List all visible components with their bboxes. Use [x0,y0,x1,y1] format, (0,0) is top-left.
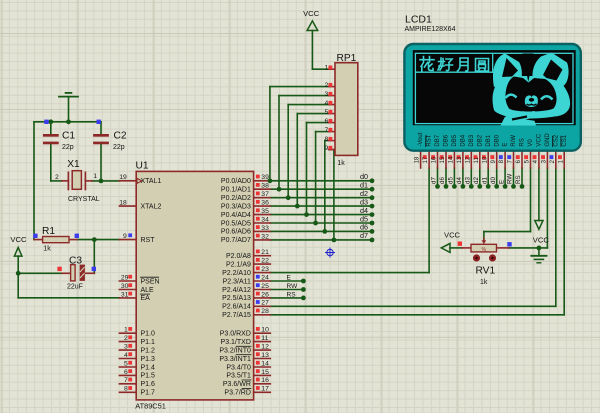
svg-text:6: 6 [124,369,128,376]
svg-text:RST: RST [427,134,433,146]
svg-text:12: 12 [465,156,471,163]
svg-text:P1.7: P1.7 [141,390,156,397]
svg-text:P2.6/A14: P2.6/A14 [222,304,251,311]
svg-text:R/W: R/W [511,135,517,147]
svg-text:VCC: VCC [10,235,27,244]
svg-text:P2.5/A13: P2.5/A13 [222,295,251,302]
svg-text:P3.6/WR: P3.6/WR [223,381,251,388]
svg-text:%: % [481,247,486,253]
svg-text:8: 8 [124,386,128,393]
svg-text:P3.0/RXD: P3.0/RXD [220,331,251,338]
svg-text:X1: X1 [67,159,80,170]
svg-text:7: 7 [124,377,128,384]
svg-text:CRYSTAL: CRYSTAL [68,196,100,203]
svg-text:10: 10 [261,327,269,334]
svg-text:4: 4 [325,100,329,107]
svg-text:1k: 1k [480,279,488,286]
svg-text:3: 3 [542,159,548,163]
svg-text:5: 5 [525,159,531,163]
svg-text:P2.4/A12: P2.4/A12 [222,287,251,294]
svg-text:2: 2 [124,335,128,342]
svg-text:R1: R1 [42,226,55,237]
svg-text:22p: 22p [62,144,74,151]
svg-text:P1.0: P1.0 [141,331,156,338]
svg-text:4: 4 [533,159,539,163]
svg-text:P0.0/AD0: P0.0/AD0 [221,178,251,185]
svg-text:11: 11 [474,157,480,164]
svg-text:P2.7/A15: P2.7/A15 [222,312,251,319]
svg-text:29: 29 [121,274,129,281]
svg-text:9: 9 [325,145,329,152]
svg-text:P3.1/TXD: P3.1/TXD [221,339,251,346]
svg-text:33: 33 [261,225,269,232]
svg-text:P1.6: P1.6 [141,381,156,388]
svg-text:7: 7 [325,127,329,134]
svg-text:28: 28 [261,308,269,315]
svg-text:d1: d1 [481,177,488,184]
svg-text:VCC: VCC [444,230,461,239]
svg-text:23: 23 [261,266,269,273]
svg-text:1k: 1k [337,160,345,167]
svg-text:P3.5/T1: P3.5/T1 [226,373,251,380]
svg-text:24: 24 [261,274,269,281]
svg-text:2: 2 [55,174,59,181]
svg-text:P0.3/AD3: P0.3/AD3 [221,203,251,210]
svg-text:39: 39 [261,174,269,181]
svg-text:P1.2: P1.2 [141,347,156,354]
svg-text:d2: d2 [473,177,480,184]
svg-text:d4: d4 [456,177,463,184]
svg-text:RV1: RV1 [476,265,496,276]
svg-text:P1.3: P1.3 [141,356,156,363]
svg-text:RW: RW [507,174,514,184]
svg-text:5: 5 [124,360,128,367]
svg-text:14: 14 [449,156,455,163]
svg-text:DB0: DB0 [494,134,500,146]
svg-text:P2.1/A9: P2.1/A9 [226,261,251,268]
svg-text:14: 14 [261,360,269,367]
svg-text:32: 32 [261,233,269,240]
svg-text:E: E [498,180,505,184]
svg-text:CS2: CS2 [553,134,559,146]
svg-text:25: 25 [261,283,269,290]
svg-text:17: 17 [261,386,269,393]
svg-text:P0.5/AD5: P0.5/AD5 [221,220,251,227]
svg-text:P0.4/AD4: P0.4/AD4 [221,212,251,219]
svg-text:35: 35 [261,208,269,215]
svg-text:DB6: DB6 [444,134,450,146]
svg-text:12: 12 [261,344,269,351]
svg-text:AMPIRE128X64: AMPIRE128X64 [405,26,456,33]
svg-text:P2.2/A10: P2.2/A10 [222,270,251,277]
svg-text:9: 9 [123,233,127,240]
svg-text:18: 18 [119,200,127,207]
svg-text:2: 2 [325,82,329,89]
svg-text:22uF: 22uF [67,284,83,291]
svg-text:21: 21 [261,249,269,256]
svg-text:P1.1: P1.1 [141,339,156,346]
svg-text:26: 26 [261,291,269,298]
svg-text:3: 3 [325,91,329,98]
svg-text:C3: C3 [69,256,82,267]
svg-text:d7: d7 [360,231,368,240]
svg-text:34: 34 [261,216,269,223]
svg-text:RST: RST [141,237,156,244]
svg-text:4: 4 [124,352,128,359]
svg-text:16: 16 [261,377,269,384]
svg-text:P0.6/AD6: P0.6/AD6 [221,229,251,236]
svg-text:d6: d6 [439,177,446,184]
svg-text:DB3: DB3 [469,134,475,146]
svg-text:37: 37 [261,191,269,198]
svg-text:d3: d3 [465,177,472,184]
svg-text:36: 36 [261,200,269,207]
svg-text:C2: C2 [114,131,127,142]
svg-text:P3.3/INT1: P3.3/INT1 [219,356,251,363]
svg-text:1: 1 [325,65,329,72]
svg-text:P1.5: P1.5 [141,373,156,380]
svg-text:13: 13 [457,156,463,163]
svg-text:d7: d7 [431,177,438,184]
svg-text:30: 30 [121,283,129,290]
svg-text:EA: EA [141,295,151,302]
svg-text:AT89C51: AT89C51 [135,401,166,410]
svg-text:C1: C1 [62,131,75,142]
svg-text:3: 3 [124,344,128,351]
svg-text:15: 15 [440,156,446,163]
svg-text:11: 11 [261,335,268,342]
svg-text:1k: 1k [43,245,51,252]
svg-text:P0.2/AD2: P0.2/AD2 [221,195,251,202]
svg-text:RS: RS [515,175,522,184]
svg-text:17: 17 [423,156,429,163]
svg-text:P1.4: P1.4 [141,364,156,371]
svg-text:RS: RS [287,291,297,298]
svg-text:-Vout: -Vout [418,132,424,146]
svg-text:CS1: CS1 [562,134,568,146]
svg-text:E: E [503,143,509,147]
svg-text:RS: RS [520,138,526,146]
svg-text:P3.4/T0: P3.4/T0 [226,364,251,371]
svg-text:18: 18 [415,156,421,163]
svg-text:GND: GND [545,133,551,147]
svg-text:VCC: VCC [533,235,550,244]
svg-text:27: 27 [261,300,269,307]
svg-text:P2.0/A8: P2.0/A8 [226,253,251,260]
svg-text:E: E [287,275,292,282]
svg-text:VCC: VCC [537,133,543,146]
svg-text:5: 5 [325,109,329,116]
svg-text:1: 1 [124,327,128,334]
svg-text:XTAL1: XTAL1 [141,178,162,185]
svg-text:16: 16 [432,156,438,163]
svg-text:P0.7/AD7: P0.7/AD7 [221,237,251,244]
svg-text:d5: d5 [448,177,455,184]
svg-text:38: 38 [261,183,269,190]
svg-text:13: 13 [261,352,269,359]
svg-text:PSEN: PSEN [141,278,160,285]
svg-text:ALE: ALE [141,287,155,294]
svg-text:6: 6 [516,159,522,163]
svg-text:V0: V0 [528,139,534,147]
svg-text:22p: 22p [113,144,125,151]
svg-text:RW: RW [287,283,299,290]
svg-text:9: 9 [491,159,497,163]
svg-text:P2.3/A11: P2.3/A11 [223,278,251,285]
svg-text:15: 15 [261,369,269,376]
svg-text:d0: d0 [490,177,497,184]
svg-text:VCC: VCC [303,9,320,18]
svg-text:DB2: DB2 [477,134,483,146]
svg-text:DB4: DB4 [461,134,467,146]
svg-text:DB7: DB7 [435,134,441,146]
svg-text:6: 6 [325,118,329,125]
svg-text:7: 7 [508,159,514,163]
svg-text:XTAL2: XTAL2 [141,203,162,210]
svg-text:8: 8 [325,136,329,143]
svg-text:1: 1 [93,173,97,180]
svg-text:31: 31 [121,291,129,298]
svg-text:LCD1: LCD1 [405,13,432,25]
svg-text:P3.2/INT0: P3.2/INT0 [219,347,251,354]
svg-text:10: 10 [482,156,488,163]
svg-text:RP1: RP1 [337,53,357,64]
svg-text:19: 19 [119,174,127,181]
svg-text:P3.7/RD: P3.7/RD [224,390,250,397]
svg-text:DB5: DB5 [452,134,458,146]
svg-text:22: 22 [261,258,269,265]
svg-text:P0.1/AD1: P0.1/AD1 [221,187,251,194]
svg-text:U1: U1 [136,161,149,172]
svg-text:DB1: DB1 [486,134,492,146]
